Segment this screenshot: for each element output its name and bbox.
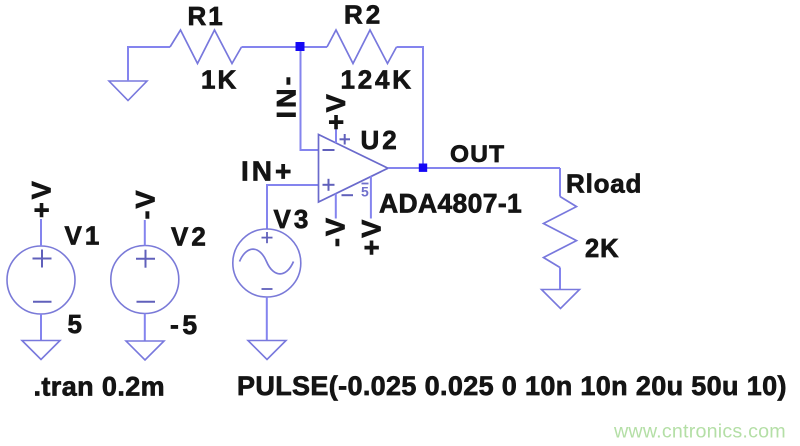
svg-text:IN+: IN+ (241, 155, 294, 186)
V1 plus mark (33, 250, 52, 268)
wire (ground to R1) (128, 47, 170, 81)
wire (V- flag to V2) (144, 220, 146, 246)
op-amp U2 triangle (319, 135, 389, 203)
svg-text:V1: V1 (65, 221, 103, 251)
svg-text:5: 5 (361, 184, 369, 200)
wire (V1 to ground) (40, 314, 42, 341)
resistor Rload (544, 197, 577, 268)
svg-text:+V: +V (27, 178, 57, 218)
wire (R1 to node and R2) (242, 46, 328, 48)
op-amp V+ supply mark (340, 134, 351, 145)
svg-text:-V: -V (131, 189, 161, 220)
V2 minus mark (137, 301, 156, 303)
op-amp inverting input mark (323, 149, 335, 151)
node junction (R1/R2/IN-) (296, 42, 305, 51)
svg-text:OUT: OUT (450, 141, 505, 168)
V3 sine wave (240, 249, 294, 274)
ground (below V2) (126, 341, 164, 360)
svg-text:U2: U2 (361, 125, 400, 155)
svg-text:124K: 124K (341, 65, 414, 95)
svg-text:www.cntronics.com: www.cntronics.com (613, 420, 786, 442)
svg-text:-V: -V (321, 216, 351, 247)
svg-text:2K: 2K (585, 235, 620, 263)
svg-text:V2: V2 (171, 222, 209, 252)
svg-text:5: 5 (68, 309, 82, 339)
op-amp non-inverting input mark (323, 179, 335, 191)
ground (below Rload) (542, 290, 580, 309)
wire (V+ flag to V1) (40, 219, 42, 246)
svg-text:R2: R2 (344, 0, 383, 30)
resistor R1 (170, 30, 242, 64)
node junction (output/feedback) (419, 164, 427, 172)
wire (OUT to Rload) (559, 168, 561, 197)
V3 minus mark (262, 288, 273, 290)
wire (Rload to ground) (559, 268, 561, 290)
resistor R2 (327, 30, 397, 64)
svg-text:V3: V3 (274, 204, 312, 234)
svg-text:+V: +V (321, 92, 351, 130)
ground (top-left, input divider) (109, 81, 147, 101)
wire (IN+ net from V3 to op-amp) (267, 185, 319, 229)
svg-text:R1: R1 (188, 1, 225, 31)
wire (op-amp output OUT net) (388, 167, 560, 169)
op-amp V- supply mark (342, 194, 354, 196)
svg-text:IN-: IN- (272, 74, 302, 119)
V2 plus mark (136, 250, 155, 268)
wire (IN- net from node to op-amp) (301, 51, 319, 150)
V3 plus mark (262, 232, 273, 243)
svg-text:+V: +V (357, 218, 387, 256)
svg-text:-5: -5 (170, 310, 201, 340)
wire (R2 to output node, feedback) (397, 47, 424, 164)
svg-text:Rload: Rload (566, 169, 642, 199)
op-amp V- supply pin stub (335, 194, 337, 219)
V1 minus mark (33, 301, 52, 303)
voltage source V2 (111, 246, 179, 314)
svg-text:.tran 0.2m: .tran 0.2m (34, 371, 166, 401)
svg-text:PULSE(-0.025 0.025 0 10n 10n 2: PULSE(-0.025 0.025 0 10n 10n 20u 50u 10) (237, 371, 787, 401)
voltage source V1 (7, 246, 75, 314)
svg-text:1K: 1K (201, 65, 238, 95)
wire (V2 to ground) (144, 314, 146, 342)
ground (below V1) (22, 341, 60, 360)
voltage source V3 (sine) (233, 229, 301, 297)
op-amp pin 5 (PD) stub (370, 176, 372, 218)
pin 5 label (active-low bar) (361, 184, 369, 200)
ground (below V3) (248, 341, 286, 360)
op-amp V+ supply pin stub (335, 129, 337, 144)
svg-text:ADA4807-1: ADA4807-1 (379, 189, 522, 219)
wire (V3 to ground) (266, 297, 268, 341)
